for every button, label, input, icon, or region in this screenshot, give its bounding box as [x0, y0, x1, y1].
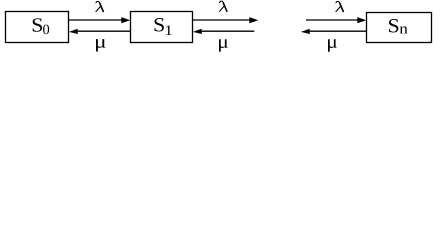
label S1	[155, 18, 172, 35]
box S1	[131, 12, 193, 43]
wire: top arrow S0 to S1	[69, 19, 123, 21]
label Sn	[389, 19, 408, 33]
wire: top arrow into Sn	[306, 19, 358, 21]
label lambda 3	[336, 1, 344, 12]
arrowhead rightward	[249, 17, 258, 23]
arrowhead into S0	[69, 29, 78, 34]
wire: bottom arrow S1 to S0	[77, 30, 130, 32]
label mu 1	[96, 39, 106, 51]
label mu 3	[328, 39, 337, 51]
label mu 2	[219, 39, 228, 51]
wire: bottom arrow into S1	[201, 30, 254, 32]
state transition diagram (birth-death Markov chain)	[0, 0, 441, 61]
box Sn	[367, 13, 432, 43]
arrowhead into S1 right edge	[193, 29, 202, 34]
wire: top arrow out of S1	[193, 19, 250, 21]
arrowhead into S1	[121, 17, 130, 23]
label S0	[33, 18, 49, 34]
arrowhead into Sn	[357, 17, 366, 23]
box S0	[6, 12, 69, 43]
label lambda 2	[219, 1, 227, 12]
wire: bottom arrow out of Sn	[309, 30, 367, 32]
label lambda 1	[96, 1, 104, 12]
arrowhead leftward	[301, 29, 310, 34]
